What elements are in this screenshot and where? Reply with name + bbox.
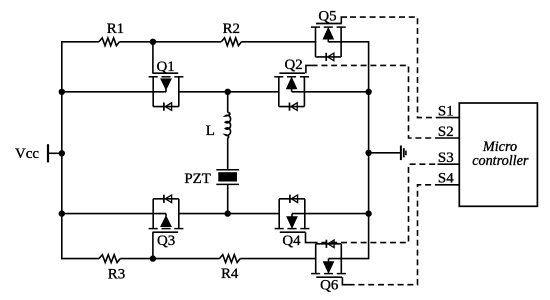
wire: top rail R2 to Q5 [241,41,316,43]
svg-text:Q4: Q4 [282,233,301,249]
transistor Q1 [149,42,184,111]
node: junction of R3 R4 and Q3 gate [150,255,156,261]
label Vcc [15,146,39,162]
transistor Q3 [149,195,184,259]
wire: top rail left segment [61,41,99,43]
svg-text:PZT: PZT [184,171,210,187]
piezo transducer PZT [184,170,239,187]
wire: Q6 drain to right column [329,258,370,260]
wire: inductor to PZT [227,138,229,169]
node: ground tap junction [365,150,371,156]
wire: node A to inductor [227,92,229,113]
wire: ground lead [369,152,401,154]
wire: mid-bottom rail Q4 source to right column [292,213,369,215]
wire: dashed gate line Q6 to S4 [349,185,438,285]
svg-text:R4: R4 [221,266,239,282]
svg-text:Q2: Q2 [284,57,302,73]
wire: Q5 drain to right column [328,42,368,92]
wire: bottom rail R4 to Q6 [240,258,316,260]
svg-text:S4: S4 [438,170,454,186]
wire: dashed gate line Q2 to S2 [312,65,438,138]
node: right column top junction [365,89,371,95]
svg-text:S1: S1 [438,103,454,119]
wire: dashed gate line Q5 to S1 [350,17,438,118]
svg-text:R1: R1 [107,21,124,37]
pin S3 [438,150,460,166]
wire: top rail between R1 and R2 [119,41,221,43]
transistor Q4 [275,195,312,249]
resistor R2 [221,21,241,46]
svg-text:R2: R2 [223,21,240,37]
svg-text:Vcc: Vcc [15,146,39,162]
wire: right column vertical [368,92,370,259]
svg-text:Q1: Q1 [156,59,174,75]
svg-text:controller: controller [472,153,529,169]
ground [401,146,406,161]
wire: mid-top rail Q2 source to right column [292,91,369,93]
wire: dashed gate line Q4 to S3 [312,164,438,242]
node: right column bottom junction [365,210,371,216]
resistor R4 [219,255,240,282]
node: Vcc junction on left rail [59,150,65,156]
svg-text:S3: S3 [438,150,454,166]
node: left rail to mid-top rail junction [59,89,65,95]
wire: mid-bottom rail Q3 drain to Q4 [179,213,279,215]
svg-text:S2: S2 [438,124,454,140]
pin S1 [438,103,460,119]
inductor L [206,112,231,139]
node: left rail to mid-bottom rail junction [59,210,65,216]
svg-text:L: L [206,123,215,139]
micro controller U1 [459,103,537,206]
wire: mid-top rail Q1 drain to Q2 [179,91,279,93]
transistor Q5 [311,9,347,61]
node: center bottom node B [225,210,231,216]
resistor R3 [99,255,125,283]
transistor Q6 [311,240,349,294]
svg-text:R3: R3 [108,266,125,282]
svg-text:Q6: Q6 [320,277,338,293]
svg-text:Q5: Q5 [318,9,336,25]
pin S2 [438,124,460,140]
svg-text:Q3: Q3 [157,233,175,249]
wire: bottom rail between R3 and R4 [120,258,219,260]
Vcc terminal [48,144,62,162]
wire: mid-bottom rail Vcc to Q3 source [61,213,166,215]
wire: bottom rail left segment [61,258,99,260]
resistor R1 [99,21,124,46]
wire: mid-top rail Vcc to Q1 source [61,91,166,93]
node: junction of R1 R2 and Q1 gate [150,39,156,45]
wire: PZT to node B [227,184,229,213]
node: center top node A [225,89,231,95]
transistor Q2 [274,57,311,111]
wire: left Vcc rail [61,41,63,259]
pin S4 [438,170,460,186]
